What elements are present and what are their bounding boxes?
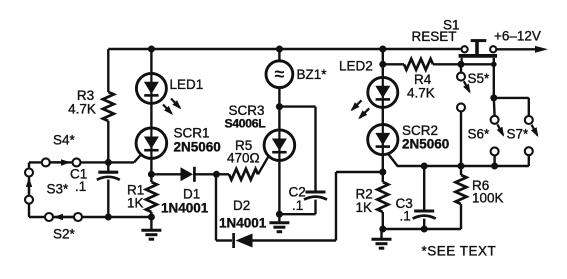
node S4-C1 junction [105,159,112,166]
label D2 [233,198,250,213]
scr SCR1 [136,128,167,159]
svg-text:.1: .1 [400,209,411,224]
wire SCR3 cathode [278,161,280,215]
switch S4 contact right [73,158,81,166]
label SCR3 [229,103,265,118]
label C1 value [75,179,86,194]
capacitor C2 [304,107,327,215]
label SCR3 part S4006L [225,117,267,131]
wire D2 bottom left [216,239,232,241]
wire LED1-SCR1 [150,102,152,128]
switch S2 contact right [74,213,82,221]
label R4 value [407,86,435,101]
wire LED2 anode [382,49,384,78]
svg-text:2N5060: 2N5060 [174,140,221,155]
wire rail2 right [433,63,494,65]
label SCR1 part 2N5060 [174,140,221,155]
svg-text:1K: 1K [356,200,373,215]
label LED1 [170,77,204,92]
label C2 [289,185,306,200]
label S6* [468,127,491,142]
resistor R6 [456,166,467,229]
node SCR1 cathode junction [148,171,155,178]
svg-text:S2*: S2* [53,227,76,242]
switch S2 arrow [54,214,74,220]
wire S4 top [29,161,134,163]
wire C2 bottom branch [279,213,315,215]
label R5 [235,138,252,153]
wire rail2 left [383,63,404,65]
svg-text:LED2: LED2 [339,59,373,74]
node R1 bottom junction [148,214,155,221]
node D1-R5-D2 junction [213,171,220,178]
node SCR3 cathode junction [276,211,283,218]
wire D2 branch down [215,174,217,240]
node S6 bottom junction [491,163,498,170]
wire S1 to S6-S7 [493,58,495,98]
switch S1 pushbutton [459,41,498,65]
label +6-12V [494,29,541,44]
wire SCR1 cathode [150,159,152,175]
label BZ1* [297,67,328,82]
label R1 [127,183,144,198]
wire BZ1 bottom [278,87,280,106]
led LED1 light arrows [163,99,181,116]
wire to SCR2 cathode [336,171,383,173]
wire LED1 anode [150,49,152,75]
label RESET [412,29,457,44]
label S4* [53,133,76,148]
wire SCR2 cathode [382,155,384,173]
switch S4 contact left [42,158,50,166]
label R6 value [472,191,504,206]
switch S3 contact top [25,169,33,177]
ground under SCR3 [269,214,289,232]
wire SCR1 gate [134,155,141,163]
scr SCR3 [264,130,295,161]
node BZ1 top rail junction [276,46,283,53]
node C1 bottom junction [105,214,112,221]
resistor R2 [377,172,388,229]
switch S3 contact bottom [25,196,33,204]
wire SCR3 gate [258,156,269,175]
label S3* [47,182,70,197]
wire SCR3 anode [278,107,280,130]
led LED2 light arrows [351,100,370,119]
svg-text:*SEE TEXT: *SEE TEXT [422,244,497,259]
label R2 value [356,200,373,215]
switch S5 [457,64,471,166]
node C3 bottom junction [421,226,428,233]
capacitor C3 [413,166,436,229]
wire R2 to R6 bottom [383,228,461,230]
wire D2 branch up [335,172,337,241]
label R2 [356,187,373,202]
label C3 [396,196,413,211]
node LED1 top rail junction [148,46,155,53]
label SCR2 [402,123,438,138]
scr SCR2 [368,125,398,155]
switch S3 arrow [26,178,32,196]
svg-text:100K: 100K [472,191,504,206]
resistor R3 [103,92,114,162]
node S6-S7 top junction [490,94,497,101]
switch S2 contact left [45,213,53,221]
svg-text:S4006L: S4006L [225,117,267,131]
svg-text:1N4001: 1N4001 [161,201,209,216]
label R3 value [68,102,96,117]
svg-text:SCR1: SCR1 [174,126,210,141]
node rail2 corner junction [491,62,497,68]
label SCR2 part 2N5060 [402,137,449,152]
svg-text:D2: D2 [233,198,250,213]
svg-text:+6–12V: +6–12V [494,29,541,44]
svg-text:S6*: S6* [468,127,491,142]
svg-text:2N5060: 2N5060 [402,137,449,152]
node BZ1-SCR3-C2 junction [276,103,283,110]
resistor R4 [404,59,433,70]
label D1 [183,187,200,202]
ground under R1 [141,217,161,239]
wire SCR2 gate [388,154,529,166]
node S5 rail junction [458,61,465,68]
label D2 part 1N4001 [219,216,267,231]
label S7* [507,127,530,142]
label R4 [414,72,432,87]
led LED1 [136,73,166,103]
node R2 bottom junction [379,226,386,233]
wire supply arrow [496,46,548,53]
led LED2 [368,77,398,107]
node R6 gate-wire junction [458,163,465,170]
svg-text:.1: .1 [75,179,86,194]
switch S4 arrow [51,159,71,166]
label C1 [70,167,87,182]
svg-text:4.7K: 4.7K [407,86,435,101]
diode D1 [181,167,217,182]
svg-text:4.7K: 4.7K [68,102,96,117]
switch S6 [491,98,505,166]
label S2* [53,227,76,242]
buzzer BZ1 [266,61,293,88]
wire LED2-SCR2 [382,107,384,125]
label R5 value [227,151,260,166]
label R1 value [127,196,144,211]
wire S3 left [28,162,30,217]
label R6 [472,178,489,193]
label S5* [468,71,491,86]
svg-text:S5*: S5* [468,71,491,86]
wire C2 top branch [279,105,315,107]
svg-text:S7*: S7* [507,127,530,142]
svg-text:LED1: LED1 [170,77,204,92]
wire BZ1 top [278,49,280,61]
wire S2 bottom [29,216,151,218]
wire left rail upper [107,49,109,92]
svg-text:.1: .1 [292,198,303,213]
label *SEE TEXT [422,244,497,259]
wire top supply rail [108,48,461,50]
label C2 value [292,198,303,213]
capacitor C1 [97,162,120,217]
svg-text:S4*: S4* [53,133,76,148]
svg-text:1K: 1K [127,196,144,211]
resistor R5 [216,169,258,180]
label R3 [77,88,94,103]
wire SCR1 to D1 [151,173,181,175]
label C3 value [400,209,411,224]
node LED2 rail2 junction [379,61,386,68]
label D1 part 1N4001 [161,201,209,216]
svg-text:RESET: RESET [412,29,457,44]
svg-text:S3*: S3* [47,182,70,197]
ground under R2 [372,229,392,248]
switch S7 [525,98,539,166]
svg-text:BZ1*: BZ1* [297,67,328,82]
label S1 [443,18,460,33]
svg-text:1N4001: 1N4001 [219,216,267,231]
node SCR2 cathode junction [379,169,386,176]
wire S6-S7 top [494,97,529,99]
label SCR1 [174,126,210,141]
node LED2 top rail junction [379,46,386,53]
diode D2 [234,233,336,248]
svg-text:470Ω: 470Ω [227,151,260,166]
node C3 top junction [421,163,428,170]
svg-text:D1: D1 [183,187,200,202]
resistor R1 [146,174,157,217]
label LED2 [339,59,373,74]
svg-text:≈: ≈ [274,64,284,84]
